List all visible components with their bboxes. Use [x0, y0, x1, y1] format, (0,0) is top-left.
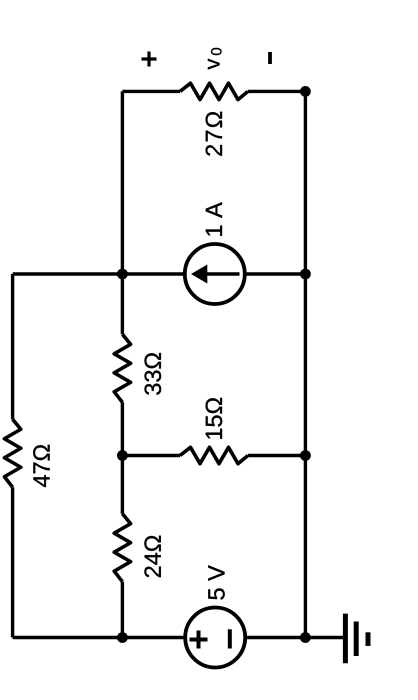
label plus polarity of v0	[142, 52, 157, 67]
wire 27-ohm branch upper lead	[122, 90, 180, 93]
node dot top bus left	[117, 632, 128, 643]
voltage source minus sign	[228, 629, 232, 648]
resistor R27 27-ohm zigzag	[180, 83, 248, 99]
node dot top bus right	[117, 269, 128, 280]
label v0 output voltage	[208, 59, 220, 70]
resistor R24 24-ohm zigzag	[114, 514, 130, 582]
wire top bus segment C	[121, 91, 124, 334]
node dot bottom bus middle	[300, 450, 311, 461]
wire right connector and current source branch	[13, 272, 306, 275]
label 1 A current value	[206, 202, 222, 235]
wire left branch with 5V source	[13, 636, 306, 639]
wire top outer left segment	[11, 487, 14, 637]
node dot bottom bus left	[300, 632, 311, 643]
label 47-ohm value	[33, 445, 49, 487]
resistor R47 47-ohm zigzag	[4, 419, 20, 487]
wire top bus segment A	[121, 582, 124, 638]
label 15-ohm value	[206, 398, 223, 439]
wire 15-ohm branch upper lead	[122, 454, 180, 457]
label 33-ohm value	[145, 353, 162, 395]
ground bar middle	[354, 622, 359, 657]
ground stem wire	[305, 636, 345, 639]
label 5 V voltage value	[208, 565, 224, 599]
resistor R33 33-ohm zigzag	[114, 334, 130, 402]
current source arrowhead	[191, 265, 207, 284]
voltage source plus sign	[190, 631, 208, 649]
resistor R15 15-ohm zigzag	[180, 447, 248, 463]
ground bar short	[366, 632, 371, 646]
current source U1 circle	[185, 244, 245, 304]
wire top outer right segment	[11, 274, 14, 419]
wire 27-ohm branch lower lead	[248, 90, 305, 93]
label minus polarity of v0	[268, 52, 272, 64]
current source arrow shaft	[207, 272, 240, 276]
wire 15-ohm branch lower lead	[248, 454, 305, 457]
wire bottom bus	[304, 91, 307, 637]
label 27-ohm value	[206, 112, 222, 156]
node dot top bus middle	[117, 450, 128, 461]
ground bar long	[343, 614, 348, 664]
voltage source V1 circle	[185, 608, 245, 668]
node dot bottom bus current branch	[300, 269, 311, 280]
wire top bus segment B	[121, 402, 124, 513]
label 24-ohm value	[144, 536, 160, 578]
node dot bottom bus right	[300, 86, 311, 97]
